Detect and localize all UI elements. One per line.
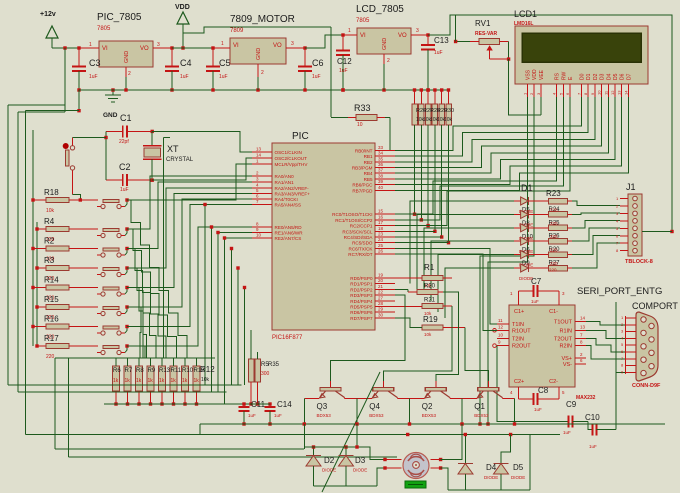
svg-text:DIODE: DIODE <box>484 475 498 480</box>
svg-text:BDX53: BDX53 <box>369 413 384 418</box>
svg-text:10k: 10k <box>444 117 453 123</box>
svg-text:T1IN: T1IN <box>512 322 524 328</box>
svg-text:Q2: Q2 <box>422 402 433 411</box>
svg-text:R16: R16 <box>44 315 59 324</box>
wire RB7 to LCD D7 <box>395 97 628 190</box>
diode D4 <box>464 435 466 464</box>
svg-text:16: 16 <box>378 214 384 219</box>
wire array bottom bus <box>104 403 250 405</box>
wire RB1 to LCD D1 <box>395 97 588 156</box>
svg-text:C2+: C2+ <box>514 379 524 385</box>
svg-text:1k: 1k <box>125 378 131 384</box>
svg-text:R30: R30 <box>444 108 454 114</box>
svg-text:R15: R15 <box>44 295 59 304</box>
wire RV1 to VEE <box>509 59 541 115</box>
wire RE2 link <box>225 237 253 239</box>
wire RC5 row <box>395 242 449 244</box>
svg-text:7805: 7805 <box>97 26 111 32</box>
wire RV1 to rail <box>456 41 470 43</box>
wire left bus b <box>18 111 65 113</box>
resistor R23 <box>548 198 567 204</box>
svg-text:RA3/AN3/VREF+: RA3/AN3/VREF+ <box>275 192 311 197</box>
svg-text:1k: 1k <box>113 378 119 384</box>
svg-text:12: 12 <box>610 90 615 95</box>
svg-text:7809_MOTOR: 7809_MOTOR <box>230 14 295 25</box>
transistor Q3 BDX53 <box>330 381 332 388</box>
svg-text:C1+: C1+ <box>514 309 524 315</box>
pin 19 RD0/PSP0 <box>375 277 395 279</box>
svg-text:RD7/PSP7: RD7/PSP7 <box>350 316 373 321</box>
wire bottom bus 2 <box>26 434 560 436</box>
diode D1.3 <box>514 227 521 229</box>
svg-text:DIODE: DIODE <box>511 475 525 480</box>
svg-text:2: 2 <box>261 70 264 76</box>
wire matrix drop c <box>231 249 233 386</box>
svg-text:RW: RW <box>561 71 567 80</box>
wire +12v rail <box>52 47 99 49</box>
wire crystal column <box>162 138 164 358</box>
pin 35 RB2 <box>375 161 395 163</box>
svg-text:Q3: Q3 <box>317 402 328 411</box>
svg-text:37: 37 <box>378 168 384 173</box>
svg-text:RA4/T0CKI: RA4/T0CKI <box>275 197 298 202</box>
pin 2 RA0/AN0 <box>252 175 272 177</box>
diode D5 <box>501 435 511 464</box>
svg-text:1uF: 1uF <box>89 74 98 80</box>
svg-text:12: 12 <box>498 324 504 329</box>
svg-text:CONN-D9F: CONN-D9F <box>632 383 661 389</box>
svg-text:RD0/PSP0: RD0/PSP0 <box>350 276 373 281</box>
svg-text:C2-: C2- <box>549 379 558 385</box>
wire base Q3 <box>331 295 406 381</box>
svg-text:33: 33 <box>378 145 384 150</box>
pin 23 RC4/SDI/SDA <box>375 236 395 238</box>
svg-text:RC0/T1OSO/T1CKI: RC0/T1OSO/T1CKI <box>332 212 372 217</box>
svg-text:VDD: VDD <box>175 4 190 11</box>
svg-text:Q4: Q4 <box>369 402 380 411</box>
wire bottom bus 1 <box>200 423 665 425</box>
svg-text:22: 22 <box>378 290 384 295</box>
svg-text:C7: C7 <box>531 277 542 286</box>
svg-text:30: 30 <box>378 312 384 317</box>
wire RC6 to T1IN <box>395 248 497 323</box>
svg-text:7805: 7805 <box>356 18 370 24</box>
svg-text:D2: D2 <box>593 73 599 80</box>
svg-text:D6: D6 <box>620 73 626 80</box>
pin 36 RB3/PGM <box>375 167 395 169</box>
svg-text:RD3/PSP3: RD3/PSP3 <box>350 293 373 298</box>
pin 6 VS- MAX232 <box>575 363 586 365</box>
svg-text:RD6/PSP6: RD6/PSP6 <box>350 310 373 315</box>
resistor R26 network <box>413 88 416 91</box>
svg-text:T2IN: T2IN <box>512 336 524 342</box>
wire VSS down <box>488 97 528 424</box>
wire motor right bottom <box>441 468 448 490</box>
svg-text:VS-: VS- <box>563 362 572 368</box>
svg-text:RE0/AN5/RD: RE0/AN5/RD <box>275 225 303 230</box>
svg-text:1k: 1k <box>136 378 142 384</box>
pin 13 R1IN MAX232 <box>575 329 586 331</box>
svg-text:RS: RS <box>555 72 561 80</box>
svg-text:GND: GND <box>382 38 388 50</box>
wire left bus a <box>64 48 66 112</box>
svg-text:220: 220 <box>550 207 558 212</box>
svg-text:10k: 10k <box>424 332 432 337</box>
svg-text:OSC1/CLKIN: OSC1/CLKIN <box>275 150 302 155</box>
svg-text:1uF: 1uF <box>434 50 443 56</box>
svg-text:26: 26 <box>378 249 384 254</box>
push button key5 <box>103 287 119 290</box>
diode D3 <box>345 447 347 456</box>
svg-text:RE2/AN7/CS: RE2/AN7/CS <box>275 236 302 241</box>
pin 7 T2OUT MAX232 <box>575 337 586 339</box>
svg-text:3: 3 <box>416 28 419 34</box>
svg-text:R11: R11 <box>171 368 182 374</box>
svg-text:22pf: 22pf <box>119 139 129 145</box>
svg-text:C1: C1 <box>120 113 132 123</box>
svg-text:1k: 1k <box>171 378 177 384</box>
resistor R10 array <box>184 358 186 366</box>
resistor R27 network <box>420 88 423 91</box>
wires diode feeds <box>410 201 514 284</box>
svg-text:10: 10 <box>256 233 262 238</box>
svg-text:7809: 7809 <box>230 28 244 34</box>
svg-text:PIC16F877: PIC16F877 <box>272 335 303 341</box>
pin 10 RE2/AN7/CS <box>252 237 272 239</box>
svg-text:1uF: 1uF <box>120 187 129 193</box>
svg-text:1uF: 1uF <box>274 413 282 418</box>
pin 20 RD1/PSP1 <box>375 283 395 285</box>
svg-text:BDX53: BDX53 <box>474 413 489 418</box>
diode D1.1 <box>514 200 521 202</box>
pin 14 T1OUT MAX232 <box>575 321 586 323</box>
wire reset to crystal leg <box>73 137 107 139</box>
svg-text:RA1/AN1: RA1/AN1 <box>275 180 295 185</box>
wire bottom bus 3 <box>55 448 304 450</box>
svg-text:LCD_7805: LCD_7805 <box>356 4 404 15</box>
wire base Q1 <box>465 327 488 381</box>
resistor R29 network <box>433 88 436 91</box>
svg-text:DIODE: DIODE <box>322 468 336 473</box>
svg-text:Q1: Q1 <box>474 402 485 411</box>
resistor R12 array <box>196 358 198 366</box>
svg-text:1uF: 1uF <box>180 74 189 80</box>
svg-text:C10: C10 <box>585 413 600 422</box>
wire key row 6 to PIC <box>127 205 252 327</box>
diode D1.5 <box>514 254 521 256</box>
svg-text:R1OUT: R1OUT <box>512 328 531 334</box>
wire RC4 row <box>395 236 442 238</box>
motor M1 <box>403 453 429 479</box>
svg-text:220: 220 <box>550 248 558 253</box>
svg-text:R17: R17 <box>44 334 59 343</box>
svg-text:11: 11 <box>498 318 503 323</box>
svg-text:1uF: 1uF <box>531 299 539 304</box>
pin 30 RD7/PSP7 <box>375 317 395 319</box>
pin 17 RC2/CCP1 <box>375 225 395 227</box>
pin 29 RD6/PSP6 <box>375 311 395 313</box>
svg-text:R12: R12 <box>200 365 215 374</box>
svg-text:1uF: 1uF <box>534 407 542 412</box>
svg-text:28: 28 <box>378 301 384 306</box>
push button key8 <box>103 346 119 349</box>
svg-text:220: 220 <box>550 221 558 226</box>
wire RB3 to LCD D3 <box>395 97 602 168</box>
svg-text:RC5/SDO: RC5/SDO <box>352 241 373 246</box>
resistor R6 array <box>115 358 117 366</box>
svg-text:10: 10 <box>357 122 363 128</box>
svg-text:2: 2 <box>387 58 390 64</box>
svg-text:RC7/RX/DT: RC7/RX/DT <box>348 252 372 257</box>
svg-text:18: 18 <box>378 226 384 231</box>
pin 9 R2OUT MAX232 <box>497 345 509 347</box>
svg-text:R1IN: R1IN <box>559 328 572 334</box>
svg-text:R10: R10 <box>182 368 194 374</box>
svg-text:GND: GND <box>256 48 262 60</box>
svg-text:3: 3 <box>157 42 160 48</box>
svg-text:J1: J1 <box>626 182 636 192</box>
wire motor right top <box>441 424 462 460</box>
wire bottom bus 4 <box>68 358 70 457</box>
svg-text:D4: D4 <box>606 73 612 80</box>
transistor Q4 BDX53 <box>382 381 384 388</box>
capacitor C4 <box>171 48 173 67</box>
svg-text:RB3/PGM: RB3/PGM <box>352 166 373 171</box>
wire input rail 2 <box>172 47 230 49</box>
svg-text:1: 1 <box>89 42 92 48</box>
pin 1 MCLR/Vpp/THV <box>252 163 272 165</box>
svg-text:14: 14 <box>580 316 586 321</box>
wire vdd rail <box>183 27 331 33</box>
resistor R5 <box>248 359 254 382</box>
pin 34 RB1 <box>375 155 395 157</box>
svg-text:RC6/TX/CK: RC6/TX/CK <box>349 246 374 251</box>
wire top-right rail to J1 <box>428 15 672 232</box>
pin 24 RC5/SDO <box>375 242 395 244</box>
svg-text:13: 13 <box>580 324 586 329</box>
svg-text:R14: R14 <box>44 276 59 285</box>
push button key4 <box>103 268 119 271</box>
transistor Q1 BDX53 <box>487 381 489 388</box>
svg-text:RD1/PSP1: RD1/PSP1 <box>350 282 373 287</box>
wire R2OUT down <box>497 346 522 422</box>
wire J1 out <box>642 231 672 233</box>
svg-text:25: 25 <box>378 243 384 248</box>
svg-text:R35: R35 <box>268 362 280 368</box>
svg-text:RD4/PSP4: RD4/PSP4 <box>350 299 373 304</box>
wire key row 7 to PIC <box>127 227 252 346</box>
svg-text:VSS: VSS <box>526 69 532 80</box>
svg-text:220: 220 <box>46 354 55 360</box>
svg-text:D5: D5 <box>513 463 524 472</box>
svg-text:R20: R20 <box>424 284 436 290</box>
svg-text:1k: 1k <box>182 378 188 384</box>
svg-text:21: 21 <box>378 284 384 289</box>
resistor R26 <box>548 238 567 244</box>
svg-text:VO: VO <box>398 33 407 39</box>
wire base Q2 <box>436 292 459 381</box>
svg-text:OSC2/CLKOUT: OSC2/CLKOUT <box>275 156 308 161</box>
svg-text:23: 23 <box>378 232 384 237</box>
svg-text:D5: D5 <box>613 73 619 80</box>
svg-text:RC1/T1OSI/CCP2: RC1/T1OSI/CCP2 <box>335 218 373 223</box>
push button key7 <box>103 326 119 329</box>
resistor R27 <box>548 252 567 258</box>
svg-text:13: 13 <box>256 147 262 152</box>
pin 37 RB4 <box>375 172 395 174</box>
svg-text:D7: D7 <box>626 73 632 80</box>
svg-text:19: 19 <box>378 273 384 278</box>
svg-text:T1OUT: T1OUT <box>554 320 573 326</box>
capacitor C11 <box>243 404 245 407</box>
capacitor C5 <box>212 48 214 67</box>
svg-text:R23: R23 <box>546 189 561 198</box>
resistor R28 network <box>426 88 429 91</box>
svg-text:RB0/INT: RB0/INT <box>355 148 373 153</box>
svg-text:RES-VAR: RES-VAR <box>475 31 498 37</box>
svg-text:R1: R1 <box>424 263 435 272</box>
svg-text:1k: 1k <box>159 378 165 384</box>
resistor R35 <box>255 359 261 382</box>
svg-text:R19: R19 <box>423 315 438 324</box>
wire matrix drop b <box>211 227 213 392</box>
pin 18 RC3/SCK/SCL <box>375 230 395 232</box>
svg-text:MAX232: MAX232 <box>576 395 596 401</box>
svg-text:C3: C3 <box>89 58 101 68</box>
svg-text:C1-: C1- <box>549 309 558 315</box>
resistor R13 array <box>161 358 163 366</box>
svg-text:D1: D1 <box>586 73 592 80</box>
svg-text:VDD: VDD <box>532 69 538 80</box>
pin 25 RC6/TX/CK <box>375 247 395 249</box>
wire D2 D3 bottom <box>314 485 378 487</box>
svg-text:R8: R8 <box>136 368 144 374</box>
svg-text:D0: D0 <box>580 73 586 80</box>
svg-text:1uF: 1uF <box>248 413 256 418</box>
svg-text:36: 36 <box>378 162 384 167</box>
svg-text:1: 1 <box>221 41 224 47</box>
pin bubbles MAX232 outputs <box>493 329 497 333</box>
svg-text:RC4/SDI/SDA: RC4/SDI/SDA <box>344 235 374 240</box>
wire keypad bus d <box>32 130 34 346</box>
svg-text:CRYSTAL: CRYSTAL <box>166 157 194 163</box>
svg-text:1uF: 1uF <box>589 444 597 449</box>
svg-text:40: 40 <box>378 185 384 190</box>
wire key row 1 to PIC <box>127 176 252 229</box>
wire D2 D3 top <box>303 424 305 449</box>
svg-text:RD2/PSP2: RD2/PSP2 <box>350 287 373 292</box>
svg-text:RB2: RB2 <box>364 160 373 165</box>
wire matrix drop d <box>237 268 239 385</box>
svg-text:34: 34 <box>378 151 384 156</box>
pin 21 RD2/PSP2 <box>375 288 395 290</box>
svg-text:R3: R3 <box>44 256 55 265</box>
capacitor C13 <box>427 35 429 45</box>
svg-text:RV1: RV1 <box>475 19 491 28</box>
resistor R8 array <box>138 358 140 366</box>
pin 16 RC1/T1OSI/CCP2 <box>375 219 395 221</box>
pin 38 RB5 <box>375 178 395 180</box>
pin 33 RB0/INT <box>375 149 395 151</box>
svg-text:R2OUT: R2OUT <box>512 344 531 350</box>
svg-text:VI: VI <box>233 43 239 49</box>
wire gnd rail <box>79 89 449 91</box>
svg-text:27: 27 <box>378 295 384 300</box>
push button key2 <box>103 229 119 232</box>
svg-text:1: 1 <box>348 28 351 34</box>
svg-text:R7: R7 <box>125 368 133 374</box>
svg-text:C2: C2 <box>119 162 131 172</box>
pin 3 RA1/AN1 <box>252 181 272 183</box>
ic U2 MAX232 <box>509 305 575 387</box>
wire RB0 to LCD D0 <box>395 97 582 150</box>
pin 28 RD5/PSP5 <box>375 306 395 308</box>
svg-text:10: 10 <box>597 90 602 95</box>
pin 8 R2IN MAX232 <box>575 345 586 347</box>
wire matrix drop a <box>204 205 206 386</box>
svg-text:1uF: 1uF <box>563 430 571 435</box>
wire osc1 to PIC <box>152 131 252 152</box>
svg-text:13: 13 <box>617 90 622 95</box>
svg-text:3: 3 <box>291 41 294 47</box>
svg-text:14: 14 <box>623 90 628 95</box>
svg-text:PIC_7805: PIC_7805 <box>97 12 142 23</box>
wire RW <box>395 97 563 220</box>
svg-text:D2: D2 <box>324 456 335 465</box>
svg-text:R13: R13 <box>159 368 171 374</box>
motor leads <box>385 459 402 461</box>
wire Q emitter drop <box>356 424 358 447</box>
svg-text:VO: VO <box>140 46 149 52</box>
wire diagonal to motor <box>322 372 380 492</box>
svg-text:RA2/AN2/VREF-: RA2/AN2/VREF- <box>275 186 310 191</box>
svg-text:VEE: VEE <box>539 69 545 80</box>
capacitor C3 <box>78 48 80 67</box>
wire RS <box>395 97 557 214</box>
svg-text:24: 24 <box>378 237 384 242</box>
push button key3 <box>103 248 119 251</box>
svg-text:1uF: 1uF <box>339 68 348 74</box>
svg-text:RC3/SCK/SCL: RC3/SCK/SCL <box>342 229 373 234</box>
svg-text:10k: 10k <box>201 377 210 383</box>
pin 2 VS+ MAX232 <box>575 357 586 359</box>
svg-text:1uF: 1uF <box>312 74 321 80</box>
svg-text:2: 2 <box>128 71 131 77</box>
pin 10 T2IN MAX232 <box>497 337 509 339</box>
wire RB4 to LCD D4 <box>395 97 608 173</box>
wire C10 up to comport <box>616 372 625 429</box>
pin 15 RC0/T1OSO/T1CKI <box>375 213 395 215</box>
diode D1.6 <box>514 267 521 269</box>
capacitor C6 <box>304 48 306 67</box>
pin 27 RD4/PSP4 <box>375 300 395 302</box>
svg-text:RB7/PGD: RB7/PGD <box>352 188 373 193</box>
wire RB5 to LCD D5 <box>395 97 615 179</box>
svg-text:C12: C12 <box>337 57 352 66</box>
svg-text:C13: C13 <box>434 36 449 45</box>
push button reset <box>63 143 69 149</box>
svg-text:R9: R9 <box>148 368 156 374</box>
wire MCLR staircase <box>127 164 252 200</box>
wires MAX232 to comport <box>586 322 625 325</box>
wire RC7 to R1OUT <box>395 254 497 330</box>
svg-text:GND: GND <box>124 51 130 63</box>
wire array staircases <box>127 200 197 366</box>
resistor R7 array <box>127 358 129 366</box>
pin 22 RD3/PSP3 <box>375 294 395 296</box>
diode D1.2 <box>514 213 521 215</box>
svg-text:D3: D3 <box>600 73 606 80</box>
